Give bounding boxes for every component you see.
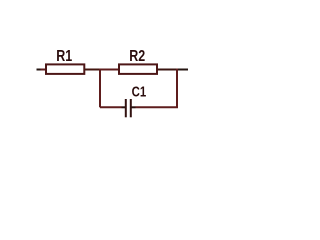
resistor R2 [119, 64, 157, 74]
bottom wire left segment [100, 106, 122, 108]
bottom wire right segment [136, 106, 179, 108]
wire left lead to R1 [41, 69, 46, 71]
capacitor C1 left plate [125, 99, 127, 117]
wire R1 to node A [85, 69, 101, 71]
bottom wire left pin tip at capacitor [122, 106, 126, 108]
svg-text:R2: R2 [129, 48, 145, 66]
wire node B right lead (pin) [177, 69, 188, 71]
node A junction vertical wire [99, 69, 101, 108]
svg-text:R1: R1 [56, 48, 72, 66]
capacitor C1 right plate [130, 99, 132, 117]
wire R2 to node B [158, 69, 178, 71]
node B junction vertical wire [176, 69, 178, 108]
svg-text:C1: C1 [132, 83, 147, 100]
wire left lead tip (pin) [37, 69, 42, 71]
wire node A to R2 [100, 69, 118, 71]
bottom wire right pin tip at capacitor [131, 106, 136, 108]
resistor R1 [46, 64, 84, 74]
